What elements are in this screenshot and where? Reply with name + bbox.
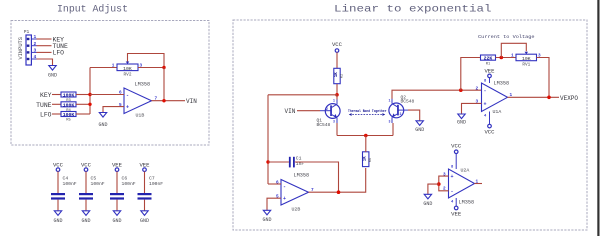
junction summing node KEY [88, 93, 91, 96]
svg-text:10K: 10K [123, 66, 132, 72]
wire VIN to Q1 base [297, 110, 320, 112]
power pin circle (C7) [143, 168, 147, 172]
wire R5 to summing bus [76, 113, 90, 115]
svg-text:U2A: U2A [461, 168, 470, 174]
svg-text:LM358: LM358 [494, 81, 510, 87]
wire U1B output to VIN [152, 100, 186, 102]
wire pin2 node up to R1 row [461, 58, 481, 91]
ground (U1A pin3) [457, 114, 466, 125]
resistor R3 100K [61, 92, 76, 103]
svg-text:GND: GND [415, 127, 424, 133]
wire tie to ground [428, 184, 439, 194]
svg-text:GND: GND [262, 217, 271, 223]
transistor Q1 BC548 [317, 99, 341, 128]
transistor Q2 BC548 (mirrored) [389, 94, 415, 123]
resistor R1 22K [481, 55, 496, 67]
ground (C4 bottom) [54, 211, 61, 216]
junction U2B output node [337, 190, 341, 194]
junction RV2 pin3 node [162, 66, 165, 69]
capacitor C6 100nF [110, 162, 136, 224]
svg-text:VEXPO: VEXPO [560, 95, 578, 102]
wire Q1 emitter down [336, 123, 338, 136]
resistor R5 100K [61, 112, 76, 123]
wire U1A pin3 to ground [462, 103, 482, 114]
junction U1A pin2 node [459, 88, 463, 92]
svg-text:R5: R5 [66, 119, 71, 123]
wire bus to RV2 pin1 [90, 67, 117, 69]
svg-text:R6: R6 [369, 157, 373, 162]
wire emitter rail [337, 135, 393, 137]
svg-text:100nF: 100nF [149, 181, 163, 187]
svg-text:3: 3 [34, 48, 37, 54]
svg-text:1: 1 [511, 54, 514, 59]
capacitor C1 1nF [289, 156, 305, 168]
svg-text:2: 2 [34, 41, 37, 47]
note Thermal Bond Together [348, 109, 387, 116]
wire wiper loop [501, 43, 526, 57]
group box Linear to exponential [233, 20, 587, 230]
ground (U2B pin5) [262, 210, 271, 223]
svg-text:1: 1 [34, 34, 37, 40]
svg-text:1K: 1K [335, 72, 339, 78]
pin 4 [31, 58, 36, 60]
resistor R4 100K [61, 102, 76, 113]
wire KEY label to R3 [52, 94, 61, 96]
capacitor C7 100nF [138, 162, 164, 224]
svg-text:C4: C4 [63, 176, 69, 182]
svg-text:8: 8 [484, 80, 487, 84]
wire summing bus vertical [89, 68, 91, 115]
junction Q1 collector node [335, 93, 339, 97]
wire collector node to Q1 collector [336, 95, 338, 100]
power VEE (U1A top) [484, 68, 495, 83]
op-amp U2B [276, 173, 314, 213]
wire rail to Q2 emitter [392, 123, 394, 136]
svg-text:BC548: BC548 [317, 122, 331, 128]
svg-text:Input Adjust: Input Adjust [57, 4, 128, 16]
svg-text:VIN: VIN [186, 98, 197, 105]
wire power to C5 [85, 172, 87, 194]
wire U2A pin3 tie [439, 176, 449, 184]
svg-text:U1A: U1A [493, 109, 502, 115]
svg-text:+: + [126, 105, 129, 111]
svg-text:C1: C1 [296, 156, 302, 162]
power pin circle (C5) [84, 168, 88, 172]
power VEE (U2A bottom) [451, 198, 462, 218]
svg-text:-: - [484, 88, 487, 94]
power pin circle (C4) [56, 168, 60, 172]
svg-text:R1: R1 [486, 63, 491, 67]
svg-text:Linear to exponential: Linear to exponential [334, 4, 492, 16]
svg-text:R2: R2 [341, 73, 345, 78]
wire C1 right to output [295, 162, 339, 193]
svg-text:GND: GND [457, 119, 466, 125]
svg-text:U1B: U1B [136, 113, 145, 119]
svg-text:VEE: VEE [451, 211, 462, 218]
svg-text:KEY: KEY [40, 92, 52, 99]
svg-text:4: 4 [34, 54, 37, 60]
ground (U2A inputs) [423, 194, 432, 207]
svg-text:VIN: VIN [285, 108, 296, 115]
op-amp U1B [119, 82, 158, 119]
wire P1 pin4 to ground [37, 59, 53, 66]
svg-text:3: 3 [333, 120, 335, 124]
svg-text:1: 1 [112, 64, 115, 69]
svg-text:RV1: RV1 [522, 62, 530, 67]
svg-text:4: 4 [451, 201, 454, 205]
svg-text:GND: GND [53, 218, 62, 224]
wire collector node to integrator (horizontal) [268, 94, 337, 96]
svg-text:1: 1 [389, 99, 391, 103]
svg-text:+: + [283, 196, 286, 202]
wire integrator vertical to U2B pin6 [268, 183, 281, 185]
svg-text:P1: P1 [24, 29, 30, 35]
op-amp U1A [476, 80, 513, 119]
wire RV2 wiper loop [128, 54, 165, 68]
ground (P1) [48, 66, 57, 79]
svg-text:GND: GND [98, 122, 107, 128]
power VCC (R2 top) [332, 41, 343, 52]
svg-text:-: - [451, 189, 454, 195]
svg-text:GND: GND [81, 218, 90, 224]
svg-text:+: + [451, 174, 454, 180]
ground (Q2 base) [415, 121, 424, 133]
connector P1 [18, 29, 37, 65]
resistor R2 (vertical) [334, 68, 345, 83]
wire RV2 pin3 to feedback corner [138, 67, 164, 69]
svg-text:100K: 100K [63, 93, 75, 99]
svg-text:4: 4 [484, 115, 487, 119]
junction C1 tap [266, 160, 269, 163]
svg-text:GND: GND [48, 73, 57, 79]
svg-text:-: - [283, 184, 286, 190]
power VCC (U2A top) [451, 143, 462, 170]
svg-text:TUNE: TUNE [36, 102, 52, 109]
op-amp U2A [443, 166, 479, 206]
svg-text:Current to Voltage: Current to Voltage [478, 34, 535, 40]
wire feedback vertical to output [163, 68, 165, 101]
wire TUNE label to R4 [52, 103, 61, 105]
svg-text:GND: GND [423, 201, 432, 207]
svg-text:VCC: VCC [332, 41, 343, 48]
capacitor C5 100nF [79, 162, 105, 224]
wire C5 to ground [85, 200, 87, 211]
svg-text:C7: C7 [149, 176, 155, 182]
wire R2 to collector node [336, 84, 338, 95]
screen right edge bar [597, 0, 599, 236]
junction R1 / wiper loop node [500, 56, 504, 60]
svg-text:C5: C5 [91, 176, 97, 182]
svg-text:LM358: LM358 [294, 173, 310, 179]
wire power to C4 [57, 172, 59, 194]
junction U2A input tie [437, 182, 441, 186]
ground (C7 bottom) [141, 211, 148, 216]
wire RV1 pin3 to output node [537, 58, 550, 98]
wire U2B pin5 to ground [267, 198, 281, 210]
wire Q2 collector up and right to U1A [392, 90, 482, 99]
ground (C6 bottom) [113, 211, 120, 216]
svg-text:+: + [484, 102, 487, 108]
wire power to C7 [144, 172, 146, 194]
junction VEXPO node [547, 96, 551, 100]
svg-text:U2B: U2B [292, 207, 301, 213]
svg-text:100nF: 100nF [91, 181, 105, 187]
svg-text:100nF: 100nF [63, 181, 77, 187]
wire R1 to RV1 pin1 [496, 57, 517, 59]
ground (C5 bottom) [82, 211, 89, 216]
wire Q2 base to ground [408, 110, 420, 121]
wire R3 to summing bus [76, 94, 90, 96]
svg-text:1: 1 [333, 99, 335, 103]
pin 1 [31, 38, 36, 40]
pin 3 [31, 51, 36, 53]
svg-text:VCC: VCC [451, 143, 462, 150]
junction summing node TUNE [88, 103, 91, 106]
svg-text:LFO: LFO [40, 112, 52, 119]
svg-text:VINPUTS: VINPUTS [18, 37, 24, 60]
potentiometer RV2 10K [112, 62, 143, 78]
svg-text:8: 8 [451, 166, 454, 170]
svg-text:10K: 10K [522, 56, 531, 62]
svg-text:RV2: RV2 [124, 73, 132, 78]
wire U2A output stub [475, 183, 483, 185]
svg-text:2: 2 [476, 86, 479, 91]
svg-text:GND: GND [112, 218, 121, 224]
svg-text:100K: 100K [63, 102, 75, 108]
svg-text:100K: 100K [63, 112, 75, 118]
wire R6 top to emitter rail [365, 136, 367, 153]
svg-text:LFO: LFO [53, 50, 65, 57]
wire U2B output to R6 [309, 168, 366, 192]
wire P1 pin1 to KEY label [37, 38, 52, 40]
wire power to C6 [116, 172, 118, 194]
svg-text:GND: GND [140, 218, 149, 224]
svg-text:2: 2 [400, 112, 402, 116]
svg-text:BC548: BC548 [401, 99, 415, 105]
group box Input Adjust [11, 21, 209, 146]
wire C7 to ground [144, 200, 146, 211]
junction U1B output node [162, 99, 165, 102]
junction emitter rail to R6 [364, 134, 368, 138]
wire P1 pin3 to LFO label [37, 51, 52, 53]
capacitor C4 100nF [51, 162, 77, 224]
wire C6 to ground [116, 200, 118, 211]
wire C1 left [268, 161, 289, 163]
svg-text:22K: 22K [484, 56, 493, 62]
wire R4 to summing bus [76, 103, 90, 105]
svg-text:LM358: LM358 [135, 82, 151, 88]
wire U1B pin5 to ground [103, 107, 124, 113]
wire integrator feedback vertical [267, 95, 269, 184]
potentiometer RV1 10K [511, 52, 541, 68]
pin 2 [31, 45, 36, 47]
wire P1 pin2 to TUNE label [37, 45, 52, 47]
svg-text:Thermal Bond Together: Thermal Bond Together [348, 109, 387, 114]
power pin circle (C6) [115, 168, 119, 172]
resistor R6 (vertical) [363, 152, 374, 167]
svg-text:1K: 1K [364, 156, 368, 162]
wire U1A output to VEXPO [508, 96, 560, 98]
wire LFO label to R5 [52, 113, 61, 115]
svg-text:2: 2 [326, 107, 328, 111]
svg-text:3: 3 [389, 120, 391, 124]
svg-text:LM358: LM358 [459, 200, 475, 206]
svg-text:-: - [126, 92, 129, 98]
wire U2A pin2 tie [439, 184, 449, 191]
wire C4 to ground [57, 200, 59, 211]
svg-text:VCC: VCC [484, 129, 495, 136]
wire bus to U1B pin6 [90, 94, 124, 96]
svg-text:100nF: 100nF [122, 181, 136, 187]
svg-text:C6: C6 [122, 176, 128, 182]
wire VCC to R2 [336, 52, 338, 68]
svg-text:6: 6 [276, 180, 279, 185]
power VCC (U1A bottom) [484, 112, 495, 136]
ground (U1B pin5) [98, 113, 107, 129]
